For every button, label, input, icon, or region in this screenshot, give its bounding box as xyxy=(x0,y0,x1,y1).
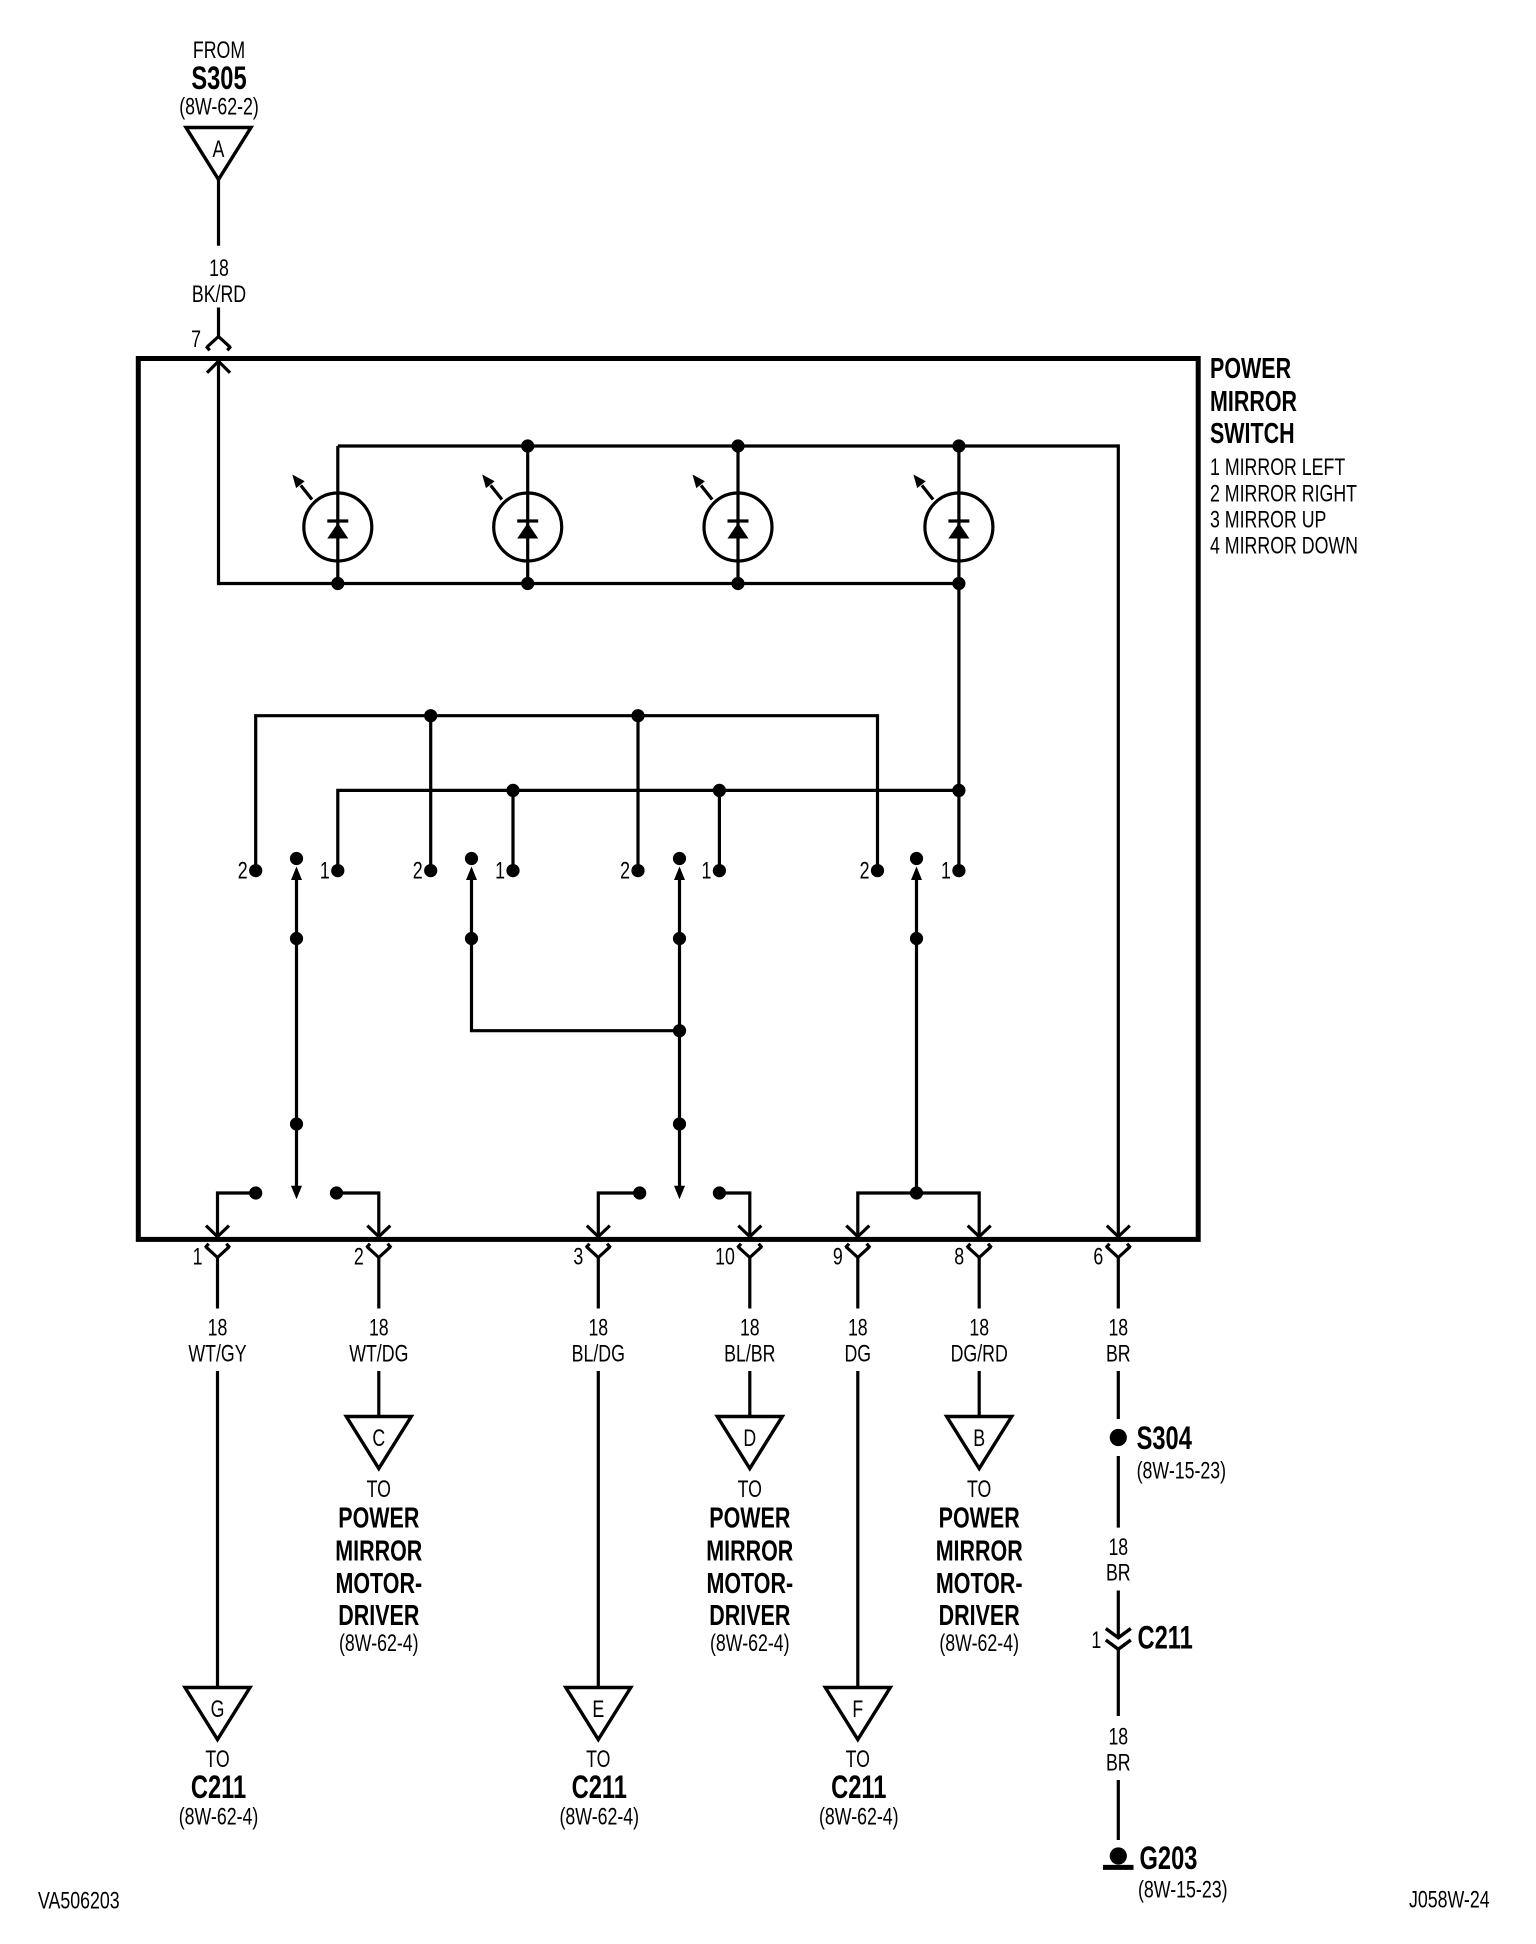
wire to ground G203 xyxy=(1117,1780,1120,1840)
svg-text:(8W-62-4): (8W-62-4) xyxy=(939,1630,1019,1657)
svg-text:J058W-24: J058W-24 xyxy=(1409,1887,1490,1914)
power mirror switch box xyxy=(138,359,1198,1240)
mirror select bus (lower) xyxy=(338,784,966,871)
wire label 18 BR xyxy=(1106,1315,1131,1368)
switch section 3 terminals xyxy=(620,858,726,885)
svg-text:6: 6 xyxy=(1093,1244,1103,1271)
pin 10 connector xyxy=(715,1244,762,1309)
label FROM S305 (8W-62-2) xyxy=(179,37,259,121)
wire label 18 WT/DG xyxy=(349,1315,408,1368)
svg-text:18: 18 xyxy=(848,1315,868,1342)
svg-text:C211: C211 xyxy=(191,1769,246,1805)
svg-text:3 MIRROR UP: 3 MIRROR UP xyxy=(1210,507,1326,534)
wire connector A to label 18 BK/RD xyxy=(217,180,220,246)
svg-text:2: 2 xyxy=(354,1244,364,1271)
svg-text:TO: TO xyxy=(738,1476,762,1503)
label TO C211 (8W-62-4) xyxy=(179,1746,259,1831)
splice S304 xyxy=(1110,1420,1226,1485)
svg-text:G203: G203 xyxy=(1140,1840,1198,1876)
svg-text:S304: S304 xyxy=(1137,1420,1192,1456)
svg-text:MIRROR: MIRROR xyxy=(335,1536,422,1568)
svg-text:MIRROR: MIRROR xyxy=(706,1536,793,1568)
label TO POWER MIRROR MOTOR-DRIVER xyxy=(936,1476,1023,1657)
svg-text:1: 1 xyxy=(702,858,712,885)
output bracket pins 9-8 xyxy=(846,1186,990,1236)
pin 7 entry arrowhead xyxy=(207,361,230,373)
switch 3 wiper xyxy=(673,852,686,1199)
switch 4 wiper xyxy=(910,852,923,1193)
label TO POWER MIRROR MOTOR-DRIVER xyxy=(706,1476,793,1657)
svg-text:18: 18 xyxy=(1108,1724,1128,1751)
switch 2 wiper xyxy=(465,852,680,1031)
pin 2 connector xyxy=(354,1244,391,1309)
pin 3 connector xyxy=(573,1244,610,1309)
lamp top bus xyxy=(338,444,1119,447)
svg-text:(8W-62-4): (8W-62-4) xyxy=(560,1804,640,1831)
svg-text:2: 2 xyxy=(620,858,630,885)
svg-text:BL/BR: BL/BR xyxy=(724,1341,775,1368)
footer drawing number VA506203 xyxy=(38,1888,120,1915)
svg-text:18: 18 xyxy=(209,255,229,282)
svg-text:2: 2 xyxy=(238,858,248,885)
connector D xyxy=(717,1417,782,1469)
wire pin 7 feed (internal) xyxy=(217,361,220,585)
svg-text:VA506203: VA506203 xyxy=(38,1888,120,1915)
wire label 18 BL/BR xyxy=(724,1315,775,1368)
svg-text:(8W-62-4): (8W-62-4) xyxy=(179,1804,259,1831)
connector G xyxy=(185,1688,250,1740)
svg-text:1: 1 xyxy=(193,1244,203,1271)
label TO C211 (8W-62-4) xyxy=(819,1746,899,1831)
svg-text:18: 18 xyxy=(740,1315,760,1342)
wire pin 9 to connector F xyxy=(856,1371,859,1688)
pin number 7 xyxy=(191,326,201,353)
illumination lamp LED 4 xyxy=(913,446,993,584)
svg-text:18: 18 xyxy=(208,1315,228,1342)
svg-text:BR: BR xyxy=(1106,1560,1131,1587)
legend pin functions xyxy=(1210,454,1358,560)
svg-text:G: G xyxy=(211,1696,225,1723)
svg-text:DRIVER: DRIVER xyxy=(709,1600,790,1632)
output bracket pins 1-2 xyxy=(206,1186,390,1236)
svg-text:2: 2 xyxy=(413,858,423,885)
wire lamp bus to pin 6 xyxy=(1117,444,1120,1236)
wire label 18 BR (upper) xyxy=(1106,1534,1131,1587)
illumination lamp LED 3 xyxy=(693,446,773,584)
mirror select bus (upper) xyxy=(256,709,878,870)
svg-text:4 MIRROR DOWN: 4 MIRROR DOWN xyxy=(1210,533,1358,560)
svg-text:WT/GY: WT/GY xyxy=(188,1341,246,1368)
svg-text:1: 1 xyxy=(1091,1627,1101,1654)
svg-text:18: 18 xyxy=(588,1315,608,1342)
switch section 4 terminals xyxy=(860,858,966,885)
in-line connector C211 pin 1 xyxy=(1091,1620,1192,1656)
svg-text:POWER: POWER xyxy=(939,1503,1020,1535)
svg-text:(8W-62-2): (8W-62-2) xyxy=(179,94,259,121)
svg-text:18: 18 xyxy=(969,1315,989,1342)
illumination lamp LED 2 xyxy=(482,446,562,584)
svg-text:POWER: POWER xyxy=(1210,353,1291,385)
svg-text:1: 1 xyxy=(495,858,505,885)
component name POWER MIRROR SWITCH xyxy=(1210,353,1297,450)
svg-text:(8W-15-23): (8W-15-23) xyxy=(1138,1877,1228,1904)
junction dots on lamp top bus xyxy=(521,439,965,452)
wire to connector C211 xyxy=(1117,1591,1120,1637)
pin 8 connector xyxy=(954,1244,991,1309)
switch section 1 terminals xyxy=(238,858,345,885)
svg-text:F: F xyxy=(852,1696,863,1723)
wire pin 3 to connector E xyxy=(597,1371,600,1688)
wire label 18 BR (lower) xyxy=(1106,1724,1131,1777)
svg-text:18: 18 xyxy=(1108,1315,1128,1342)
wire label 18 BL/DG xyxy=(572,1315,625,1368)
wire pin 10 to connector D xyxy=(748,1371,751,1417)
svg-text:C: C xyxy=(372,1425,385,1452)
svg-text:TO: TO xyxy=(967,1476,991,1503)
svg-text:C211: C211 xyxy=(831,1769,886,1805)
connector E xyxy=(566,1688,631,1740)
svg-text:(8W-62-4): (8W-62-4) xyxy=(819,1804,899,1831)
wire pin 8 to connector B xyxy=(978,1371,981,1417)
svg-text:DG/RD: DG/RD xyxy=(951,1341,1008,1368)
svg-text:1: 1 xyxy=(320,858,330,885)
svg-text:BR: BR xyxy=(1106,1341,1131,1368)
svg-text:MOTOR-: MOTOR- xyxy=(336,1568,423,1600)
svg-text:MIRROR: MIRROR xyxy=(1210,386,1297,418)
svg-text:WT/DG: WT/DG xyxy=(349,1341,408,1368)
pin 6 arrowhead xyxy=(1107,1226,1130,1237)
svg-text:(8W-15-23): (8W-15-23) xyxy=(1137,1458,1227,1485)
svg-text:(8W-62-4): (8W-62-4) xyxy=(339,1630,419,1657)
pin 7 connector symbol xyxy=(206,337,231,351)
svg-text:MIRROR: MIRROR xyxy=(936,1536,1023,1568)
label TO POWER MIRROR MOTOR-DRIVER xyxy=(335,1476,422,1657)
svg-text:BL/DG: BL/DG xyxy=(572,1341,625,1368)
ground G203 xyxy=(1103,1840,1228,1904)
svg-text:A: A xyxy=(213,136,225,163)
pin 1 connector xyxy=(193,1244,230,1309)
svg-text:MOTOR-: MOTOR- xyxy=(936,1568,1023,1600)
switch 1 wiper (double arrow) xyxy=(290,852,303,1199)
svg-text:(8W-62-4): (8W-62-4) xyxy=(710,1630,790,1657)
wire label 18 DG/RD xyxy=(951,1315,1008,1368)
svg-text:7: 7 xyxy=(191,326,201,353)
svg-text:1: 1 xyxy=(941,858,951,885)
lamp bottom bus xyxy=(219,582,959,585)
svg-text:18: 18 xyxy=(1108,1534,1128,1561)
svg-text:B: B xyxy=(973,1425,985,1452)
wire pin 1 to connector G xyxy=(216,1371,219,1688)
wire pin 6 to splice S304 xyxy=(1117,1371,1120,1419)
svg-text:18: 18 xyxy=(369,1315,389,1342)
svg-text:C211: C211 xyxy=(1138,1620,1193,1656)
wire label 18 DG xyxy=(845,1315,872,1368)
svg-text:E: E xyxy=(592,1696,604,1723)
wire label 18 BK/RD xyxy=(192,255,246,308)
switch section 2 terminals xyxy=(413,858,520,885)
wire lamp 4 column to switch node 1 xyxy=(957,584,960,871)
svg-text:BR: BR xyxy=(1106,1750,1131,1777)
svg-text:D: D xyxy=(743,1425,756,1452)
svg-text:DRIVER: DRIVER xyxy=(338,1600,419,1632)
svg-text:BK/RD: BK/RD xyxy=(192,281,246,308)
pin 9 connector xyxy=(833,1244,870,1309)
footer sheet number J058W-24 xyxy=(1409,1887,1490,1914)
pin 6 connector xyxy=(1093,1244,1130,1309)
svg-text:SWITCH: SWITCH xyxy=(1210,418,1295,450)
svg-text:10: 10 xyxy=(715,1244,735,1271)
output bracket pins 3-10 xyxy=(587,1186,762,1236)
svg-text:POWER: POWER xyxy=(709,1503,790,1535)
connector F xyxy=(825,1688,890,1740)
connector C xyxy=(346,1417,411,1469)
wire label to pin 7 xyxy=(217,308,220,337)
svg-text:POWER: POWER xyxy=(338,1503,419,1535)
svg-text:S305: S305 xyxy=(191,60,246,96)
wire S304 down xyxy=(1117,1456,1120,1528)
svg-text:MOTOR-: MOTOR- xyxy=(707,1568,794,1600)
svg-text:2: 2 xyxy=(860,858,870,885)
wire label 18 WT/GY xyxy=(188,1315,246,1368)
svg-text:DG: DG xyxy=(845,1341,872,1368)
illumination lamp LED 1 xyxy=(292,446,372,584)
svg-text:C211: C211 xyxy=(572,1769,627,1805)
svg-text:9: 9 xyxy=(833,1244,843,1271)
connector B xyxy=(947,1417,1012,1469)
wire pin 2 to connector C xyxy=(377,1371,380,1417)
svg-text:DRIVER: DRIVER xyxy=(939,1600,1020,1632)
svg-text:2 MIRROR RIGHT: 2 MIRROR RIGHT xyxy=(1210,481,1357,508)
connector A (from S305) xyxy=(186,128,251,180)
svg-text:TO: TO xyxy=(367,1476,391,1503)
junction dots on lamp bottom bus xyxy=(331,577,965,590)
svg-text:1 MIRROR LEFT: 1 MIRROR LEFT xyxy=(1210,454,1345,481)
wire C211 down xyxy=(1117,1649,1120,1716)
label TO C211 (8W-62-4) xyxy=(560,1746,640,1831)
svg-text:3: 3 xyxy=(573,1244,583,1271)
svg-text:8: 8 xyxy=(954,1244,964,1271)
